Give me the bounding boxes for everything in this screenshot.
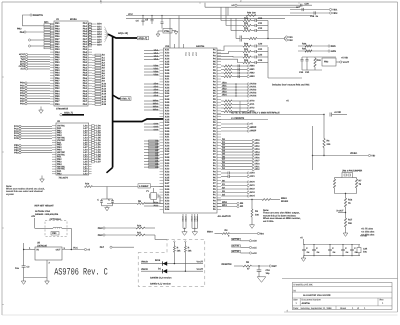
svg-text:R16: R16	[348, 199, 353, 202]
svg-text:PB7: PB7	[55, 79, 60, 82]
svg-text:VMOD: VMOD	[141, 260, 148, 263]
svg-text:These are zero ohm MISO outpu: These are zero ohm MISO output,	[263, 212, 300, 215]
svg-text:Date:: Date:	[293, 307, 299, 310]
svg-text:XA2: XA2	[165, 168, 170, 171]
svg-text:PB1: PB1	[55, 43, 60, 46]
svg-text:PB3: PB3	[55, 48, 60, 51]
svg-text:PB5: PB5	[55, 53, 60, 56]
svg-text:PA2: PA2	[83, 66, 88, 69]
svg-text:XA9: XA9	[165, 72, 170, 75]
svg-text:XA2: XA2	[165, 52, 170, 55]
svg-text:VD7: VD7	[255, 160, 260, 163]
svg-text:PB5: PB5	[55, 74, 60, 77]
svg-text:4.19MHZ: 4.19MHZ	[139, 185, 149, 188]
svg-text:PA3: PA3	[83, 69, 88, 72]
svg-text:PA4: PA4	[83, 92, 88, 95]
svg-text:A16: A16	[102, 98, 107, 101]
svg-text:XA8: XA8	[165, 127, 170, 130]
svg-text:R17: R17	[348, 219, 353, 222]
svg-text:VOUT: VOUT	[343, 61, 350, 64]
svg-text:MOSI2: MOSI2	[281, 200, 289, 203]
svg-text:XA5: XA5	[165, 118, 170, 121]
svg-text:VD2: VD2	[255, 145, 260, 148]
svg-text:VID2: VID2	[332, 12, 338, 15]
svg-text:VMOD: VMOD	[141, 268, 148, 271]
svg-text:AD[0..15]: AD[0..15]	[118, 32, 128, 35]
svg-text:XA9: XA9	[165, 159, 170, 162]
svg-text:XA4: XA4	[165, 86, 170, 89]
svg-text:PA2: PA2	[83, 25, 88, 28]
svg-text:PBX: PBX	[98, 227, 103, 230]
svg-text:A18: A18	[102, 103, 107, 106]
svg-text:AD[0..7]: AD[0..7]	[64, 112, 73, 115]
svg-text:C34: C34	[363, 248, 368, 251]
svg-text:HS0: HS0	[250, 65, 255, 68]
svg-text:A13: A13	[102, 90, 107, 93]
svg-text:RST: RST	[272, 265, 277, 268]
svg-text:AS9706 Rev. C: AS9706 Rev. C	[54, 267, 108, 278]
svg-text:VCC: VCC	[185, 51, 188, 56]
svg-text:PB6: PB6	[55, 56, 60, 59]
svg-text:AS9706: AS9706	[196, 45, 205, 48]
svg-text:uC2: uC2	[252, 252, 257, 255]
svg-text:VCC: VCC	[128, 13, 133, 16]
svg-text:XA2: XA2	[165, 81, 170, 84]
svg-text:XA0: XA0	[165, 104, 170, 107]
svg-text:XA3: XA3	[165, 142, 170, 145]
svg-text:PA5: PA5	[83, 33, 88, 36]
svg-text:SO3: SO3	[250, 191, 255, 194]
svg-text:PA3: PA3	[83, 90, 88, 93]
svg-text:VD1: VD1	[255, 165, 260, 168]
svg-text:5819: 5819	[155, 259, 161, 262]
svg-text:XA6: XA6	[165, 150, 170, 153]
svg-text:C10: C10	[258, 17, 263, 20]
svg-text:A15: A15	[102, 95, 107, 98]
svg-text:PA7: PA7	[100, 246, 105, 249]
svg-text:XA7: XA7	[165, 182, 170, 185]
svg-text:AD[0..7]: AD[0..7]	[138, 37, 147, 40]
svg-text:XA1: XA1	[165, 194, 170, 197]
svg-text:PA5: PA5	[83, 53, 88, 56]
svg-text:HREF: HREF	[250, 126, 257, 129]
svg-text:PB5: PB5	[55, 33, 60, 36]
svg-text:PA3: PA3	[83, 48, 88, 51]
svg-text:XA8: XA8	[165, 185, 170, 188]
svg-text:MISO: MISO	[207, 230, 213, 233]
svg-text:AD0: AD0	[97, 23, 102, 26]
svg-text:HS1: HS1	[250, 68, 255, 71]
svg-text:XA4: XA4	[165, 173, 170, 176]
svg-text:A14: A14	[102, 93, 107, 96]
svg-text:PB1: PB1	[55, 64, 60, 67]
svg-text:R31: R31	[302, 48, 307, 51]
svg-text:AD0: AD0	[97, 44, 102, 47]
svg-text:+3: 150 ohm: +3: 150 ohm	[361, 231, 374, 234]
svg-text:VS1: VS1	[288, 36, 293, 39]
svg-text:M:: M:	[294, 289, 297, 292]
svg-text:PB2: PB2	[55, 25, 60, 28]
svg-text:PB2: PB2	[55, 87, 60, 90]
svg-text:XA1: XA1	[165, 136, 170, 139]
svg-text:XA6: XA6	[165, 179, 170, 182]
svg-text:LM78L05: LM78L05	[37, 244, 48, 247]
svg-text:AD7: AD7	[97, 41, 102, 44]
svg-text:PA2: PA2	[83, 46, 88, 49]
svg-text:PD0: PD0	[20, 103, 25, 106]
svg-text:OUT: OUT	[56, 249, 61, 252]
svg-text:AS9600 : 800,600,256: AS9600 : 800,600,256	[35, 213, 59, 216]
svg-text:XCLK: XCLK	[182, 216, 185, 222]
svg-text:VCC: VCC	[73, 247, 78, 250]
svg-text:PB0: PB0	[55, 82, 60, 85]
svg-text:VREF: VREF	[250, 130, 257, 133]
svg-text:PA0: PA0	[83, 40, 88, 43]
svg-text:uC: uC	[231, 4, 234, 7]
svg-text:PB1: PB1	[55, 85, 60, 88]
svg-text:PB7: PB7	[55, 38, 60, 41]
svg-text:R22: R22	[244, 54, 249, 57]
svg-text:Defaults Don't mount R40 and: Defaults Don't mount R40 and R41	[272, 84, 310, 87]
svg-text:VD0: VD0	[255, 139, 260, 142]
svg-text:XCLK: XCLK	[193, 216, 196, 222]
svg-text:A11: A11	[102, 85, 107, 88]
svg-text:D:\9645\LOVE.MK:: D:\9645\LOVE.MK:	[294, 283, 314, 286]
svg-text:VD5: VD5	[255, 154, 260, 157]
svg-text:AD2: AD2	[97, 28, 102, 31]
svg-text:CK1: CK1	[250, 175, 255, 178]
svg-text:C18: C18	[266, 269, 271, 272]
svg-text:R12: R12	[244, 27, 249, 30]
svg-text:VOUT: VOUT	[197, 268, 204, 271]
svg-text:R10: R10	[85, 183, 90, 186]
svg-text:XA9: XA9	[165, 188, 170, 191]
svg-text:XTAL: XTAL	[164, 30, 170, 33]
svg-text:SO1: SO1	[250, 184, 255, 187]
svg-text:C28 .1u: C28 .1u	[310, 15, 319, 18]
svg-text:10u: 10u	[15, 267, 20, 270]
svg-text:PA1: PA1	[83, 22, 88, 25]
svg-text:MO: MO	[260, 232, 264, 235]
svg-text:NOTE: IC DECODE ONLY 2 MSB: NOTE: IC DECODE ONLY 2 MSB INTERFACE	[231, 112, 280, 115]
svg-text:HS3: HS3	[250, 75, 255, 78]
svg-text:R11: R11	[244, 22, 249, 25]
svg-text:PB2: PB2	[55, 46, 60, 49]
svg-text:L1 FERRITE: L1 FERRITE	[231, 117, 245, 120]
svg-text:C29: C29	[305, 3, 310, 6]
svg-text:PA7: PA7	[83, 79, 88, 82]
svg-text:PA0: PA0	[83, 103, 88, 106]
svg-text:XA1: XA1	[165, 165, 170, 168]
svg-text:XA2: XA2	[165, 110, 170, 113]
svg-text:uC0: uC0	[252, 240, 257, 243]
svg-text:PB0: PB0	[55, 40, 60, 43]
svg-text:PA6: PA6	[83, 56, 88, 59]
svg-text:ALLIGATOR VGA SCORE: ALLIGATOR VGA SCORE	[303, 294, 331, 297]
svg-text:PB7: PB7	[55, 100, 60, 103]
svg-text:XA8: XA8	[165, 98, 170, 101]
svg-text:PD7: PD7	[20, 100, 25, 103]
svg-text:RP1: RP1	[44, 21, 49, 24]
svg-text:PB2: PB2	[57, 173, 62, 176]
svg-text:C20: C20	[258, 43, 263, 46]
svg-text:AS95x 9,1,/ version: AS95x 9,1,/ version	[150, 282, 172, 285]
svg-text:XA7: XA7	[165, 66, 170, 69]
svg-text:VCC: VCC	[192, 51, 195, 56]
svg-text:+5V: +5V	[31, 215, 36, 218]
svg-text:C31: C31	[305, 71, 310, 74]
svg-text:C12: C12	[258, 27, 263, 30]
svg-text:+5 VID: +5 VID	[341, 57, 348, 60]
svg-text:PA7: PA7	[83, 38, 88, 41]
svg-text:R23: R23	[244, 59, 249, 62]
svg-text:XA1: XA1	[165, 49, 170, 52]
svg-text:PA4: PA4	[83, 51, 88, 54]
svg-text:PA7: PA7	[83, 59, 88, 62]
svg-text:AD4: AD4	[97, 33, 102, 36]
svg-text:RESETIN: RESETIN	[222, 263, 232, 266]
svg-text:When use release at 4550 moni: When use release at 4550 monitor,	[263, 217, 301, 220]
svg-text:R21: R21	[244, 48, 249, 51]
svg-text:A12: A12	[102, 88, 107, 91]
svg-text:C23: C23	[258, 59, 263, 62]
svg-text:SO2: SO2	[250, 188, 255, 191]
svg-text:CK0: CK0	[250, 172, 255, 175]
svg-text:VD6: VD6	[255, 157, 260, 160]
svg-text:AD1: AD1	[97, 25, 102, 28]
svg-text:PB2: PB2	[17, 28, 22, 31]
svg-text:AT90S8515: AT90S8515	[56, 108, 69, 111]
svg-text:MISO: MISO	[281, 197, 287, 200]
svg-text:AD3: AD3	[97, 31, 102, 34]
svg-text:PB6: PB6	[55, 98, 60, 101]
svg-text:C27: C27	[296, 6, 301, 9]
svg-text:PB4: PB4	[55, 92, 60, 95]
svg-text:R10: R10	[137, 225, 142, 228]
svg-text:XA5: XA5	[165, 176, 170, 179]
svg-text:R10: R10	[244, 17, 249, 20]
svg-text:C22: C22	[258, 54, 263, 57]
svg-text:PA4: PA4	[83, 72, 88, 75]
svg-text:XA2: XA2	[165, 139, 170, 142]
svg-text:10p: 10p	[266, 272, 271, 275]
svg-text:XA4: XA4	[165, 202, 170, 205]
svg-text:PA1: PA1	[83, 85, 88, 88]
svg-text:GRN: GRN	[331, 50, 336, 53]
svg-text:RED: RED	[331, 45, 336, 48]
svg-text:When use modes shared sec clo: When use modes shared sec clock,	[6, 188, 45, 191]
svg-text:VD0: VD0	[255, 162, 260, 165]
svg-text:XA3: XA3	[165, 113, 170, 116]
svg-text:PA7: PA7	[83, 100, 88, 103]
svg-text:AS9706: AS9706	[302, 302, 311, 305]
svg-text:mount this osc color and chan: mount this osc color and channel	[6, 190, 43, 193]
svg-text:XCLK: XCLK	[191, 216, 194, 222]
svg-text:XA4: XA4	[165, 115, 170, 118]
svg-text:+5: 75 ohm: +5: 75 ohm	[361, 228, 373, 231]
svg-text:R11: R11	[137, 232, 142, 235]
svg-text:VCC: VCC	[195, 51, 198, 56]
svg-text:XA7: XA7	[165, 95, 170, 98]
svg-text:FB2: FB2	[324, 61, 329, 64]
svg-text:PC5: PC5	[14, 137, 19, 140]
svg-text:PB5: PB5	[55, 95, 60, 98]
svg-text:XA0: XA0	[165, 162, 170, 165]
svg-text:R30: R30	[302, 43, 307, 46]
svg-text:C11: C11	[258, 22, 263, 25]
svg-text:PD4: PD4	[20, 92, 25, 95]
svg-text:PA6: PA6	[83, 77, 88, 80]
svg-text:SO0: SO0	[250, 181, 255, 184]
svg-text:XCLK: XCLK	[185, 216, 188, 222]
svg-text:PB4: PB4	[55, 72, 60, 75]
svg-text:+5 VID: +5 VID	[360, 235, 367, 238]
svg-text:PA0: PA0	[83, 61, 88, 64]
svg-text:VOD0: VOD0	[250, 83, 257, 86]
svg-text:PB6: PB6	[55, 77, 60, 80]
svg-text:VID: VID	[371, 154, 375, 157]
svg-text:XA8: XA8	[165, 156, 170, 159]
svg-text:PD3: PD3	[20, 90, 25, 93]
svg-text:REF NET HEIGHT: REF NET HEIGHT	[35, 205, 55, 208]
svg-text:XA3: XA3	[165, 171, 170, 174]
svg-text:RESETIN: RESETIN	[33, 14, 43, 17]
svg-text:PB3: PB3	[55, 90, 60, 93]
svg-text:ALE: ALE	[20, 68, 25, 71]
svg-text:OPTIONAL: OPTIONAL	[50, 218, 62, 221]
svg-text:Document Number: Document Number	[302, 298, 322, 301]
svg-text:PB6: PB6	[55, 35, 60, 38]
svg-text:PB0: PB0	[55, 103, 60, 106]
svg-text:PA1: PA1	[83, 64, 88, 67]
svg-text:XA5: XA5	[165, 60, 170, 63]
svg-text:crystal.: crystal.	[6, 193, 14, 196]
svg-text:VOD2: VOD2	[250, 89, 257, 92]
svg-text:cut it thin.: cut it thin.	[263, 220, 274, 223]
svg-text:IN: IN	[37, 249, 40, 252]
svg-text:10u: 10u	[363, 251, 368, 254]
svg-text:SO4: SO4	[250, 195, 255, 198]
svg-text:ALLIGATOR: ALLIGATOR	[218, 215, 232, 218]
svg-text:PE3: PE3	[14, 151, 19, 154]
svg-text:XA7: XA7	[165, 153, 170, 156]
svg-text:SY0: SY0	[250, 100, 255, 103]
svg-text:XA0: XA0	[165, 75, 170, 78]
svg-text:PB0: PB0	[55, 61, 60, 64]
svg-text:XA3: XA3	[165, 200, 170, 203]
svg-text:XA6: XA6	[165, 121, 170, 124]
svg-text:PD1: PD1	[20, 84, 25, 87]
svg-text:PB3: PB3	[55, 69, 60, 72]
svg-text:VD2: VD2	[255, 168, 260, 171]
svg-text:uC1: uC1	[252, 246, 257, 249]
svg-text:PB1: PB1	[55, 22, 60, 25]
svg-text:XA5: XA5	[165, 89, 170, 92]
svg-text:U10: U10	[165, 45, 170, 48]
svg-text:PA5: PA5	[83, 95, 88, 98]
svg-text:PB2: PB2	[55, 66, 60, 69]
svg-text:PB7: PB7	[55, 59, 60, 62]
svg-text:XA4: XA4	[165, 57, 170, 60]
svg-text:PB4: PB4	[55, 30, 60, 33]
svg-text:XA2: XA2	[165, 197, 170, 200]
svg-text:XA0: XA0	[165, 191, 170, 194]
svg-text:PA2: PA2	[83, 87, 88, 90]
svg-text:AD5: AD5	[97, 36, 102, 39]
svg-text:8515A: 8515A	[70, 18, 77, 21]
svg-text:PD0: PD0	[20, 82, 25, 85]
svg-text:VS2: VS2	[288, 39, 293, 42]
svg-text:XA5: XA5	[165, 147, 170, 150]
svg-text:XA6: XA6	[165, 63, 170, 66]
svg-text:VOD4: VOD4	[250, 95, 257, 98]
svg-text:VD3: VD3	[255, 148, 260, 151]
svg-text:PB4: PB4	[55, 51, 60, 54]
svg-text:ALT600x VGA: ALT600x VGA	[35, 210, 50, 213]
svg-text:Size: Size	[293, 298, 298, 301]
svg-text:AS9548 /2,3 version: AS9548 /2,3 version	[150, 276, 172, 279]
svg-text:A17: A17	[102, 101, 107, 104]
svg-text:AD6: AD6	[97, 38, 102, 41]
svg-text:Sheet: Sheet	[340, 307, 346, 310]
svg-text:PD6: PD6	[20, 97, 25, 100]
svg-text:VOD3: VOD3	[250, 92, 257, 95]
svg-text:XA6: XA6	[165, 208, 170, 211]
svg-text:PA4: PA4	[83, 30, 88, 33]
svg-text:PBX: PBX	[98, 234, 103, 237]
svg-text:HS2: HS2	[250, 72, 255, 75]
svg-text:XA1: XA1	[165, 107, 170, 110]
svg-text:PA1: PA1	[83, 43, 88, 46]
svg-text:LD7: LD7	[96, 161, 101, 164]
svg-text:XCLK: XCLK	[196, 216, 199, 222]
svg-text:PD2: PD2	[20, 87, 25, 90]
svg-text:XA1: XA1	[165, 78, 170, 81]
svg-text:PA6: PA6	[83, 35, 88, 38]
svg-text:XA9: XA9	[165, 130, 170, 133]
svg-text:Saturday, September 11, 1998: Saturday, September 11, 1998	[301, 307, 333, 310]
svg-text:VD1: VD1	[255, 142, 260, 145]
svg-text:X-OUT: X-OUT	[336, 210, 344, 213]
svg-text:VCC: VCC	[188, 51, 191, 56]
svg-text:74LS374: 74LS374	[59, 177, 69, 180]
svg-text:VOUT: VOUT	[197, 260, 204, 263]
svg-text:SY2: SY2	[250, 107, 255, 110]
svg-text:PA6: PA6	[83, 98, 88, 101]
svg-text:XA0: XA0	[165, 133, 170, 136]
svg-text:XA3: XA3	[165, 84, 170, 87]
svg-text:PB3: PB3	[55, 27, 60, 30]
svg-text:XA6: XA6	[165, 92, 170, 95]
svg-text:LA2: LA2	[83, 173, 88, 176]
svg-text:FB1: FB1	[52, 232, 57, 235]
svg-text:A10: A10	[102, 82, 107, 85]
svg-text:VOD1: VOD1	[250, 86, 257, 89]
svg-text:VIDEO: VIDEO	[350, 152, 357, 155]
svg-text:R33: R33	[317, 59, 322, 62]
svg-text:Note:: Note:	[263, 209, 269, 212]
svg-text:PA0: PA0	[20, 31, 25, 34]
svg-text:PA5: PA5	[83, 74, 88, 77]
svg-text:XA4: XA4	[165, 144, 170, 147]
svg-text:VID1: VID1	[332, 8, 338, 11]
svg-text:Note:: Note:	[6, 185, 12, 188]
svg-text:XA8: XA8	[165, 69, 170, 72]
svg-text:PA0: PA0	[83, 82, 88, 85]
svg-text:XA3: XA3	[165, 55, 170, 58]
svg-text:PA3: PA3	[83, 27, 88, 30]
svg-text:C21: C21	[258, 48, 263, 51]
